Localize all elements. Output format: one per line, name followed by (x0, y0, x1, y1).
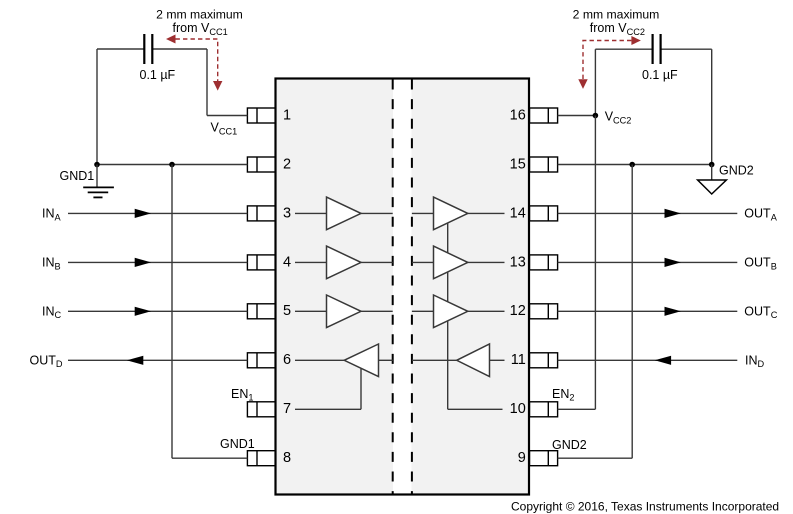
pin 3 lead box (247, 206, 275, 221)
svg-text:9: 9 (518, 450, 526, 466)
svg-text:14: 14 (510, 205, 526, 221)
buffer channel B side2 (output) (434, 246, 468, 279)
svg-text:Copyright © 2016, Texas Instru: Copyright © 2016, Texas Instruments Inco… (511, 500, 779, 514)
wire: GND1 rail to pin 2 (97, 164, 247, 166)
wire: IN_B to pin 4 (68, 261, 247, 263)
buffer channel C side1 (327, 295, 362, 328)
svg-text:4: 4 (283, 254, 291, 270)
wire: pin 3 to buffer input (295, 212, 327, 214)
wire: buffer output to barrier (ch A side1) (361, 212, 393, 214)
capacitor C2 0.1uF plates (651, 34, 653, 64)
junction VCC2 (593, 113, 599, 119)
placement arrow VCC2 (dashed red) (583, 41, 631, 80)
wire: buffer output to pin 14 (467, 212, 505, 214)
pin 9 lead box (530, 451, 558, 466)
svg-text:2 mm maximum: 2 mm maximum (573, 8, 660, 22)
svg-text:GND1: GND1 (220, 437, 255, 451)
wire: barrier to buffer input (ch A side2) (412, 212, 434, 214)
wire: barrier to buffer input (ch C side2) (412, 310, 434, 312)
wire: VCC1 bypass net top run (97, 48, 144, 50)
wire: VCC2 node up to cap (594, 49, 596, 115)
svg-text:GND2: GND2 (719, 163, 754, 177)
wire: barrier to channel D buffer input (side1) (379, 359, 393, 361)
wire: EN2 tie to VCC2 (down to pin 10) (594, 116, 596, 410)
pin 5 lead box (247, 304, 275, 319)
arrow: OUT_D direction (left) (127, 356, 143, 365)
wire: channel D buffer output to barrier (side2) (412, 359, 457, 361)
wire: cap down to GND2 (711, 49, 713, 164)
svg-text:15: 15 (510, 156, 526, 172)
wire: barrier to buffer input (ch B side2) (412, 261, 434, 263)
svg-text:8: 8 (283, 450, 291, 466)
buffer channel D side1 (output, enable from pin 7) (344, 344, 378, 377)
pin 11 lead box (530, 353, 558, 368)
wire: pin 13 to OUT_B (558, 261, 738, 263)
junction GND1 rail / pin8 branch (169, 162, 175, 168)
arrow: OUT_B direction (right) (665, 258, 681, 267)
wire: GND1 branch down to pin 8 (171, 165, 173, 459)
svg-text:2 mm maximum: 2 mm maximum (156, 8, 243, 22)
junction GND2 rail / pin 9 branch (629, 162, 635, 168)
arrow: IN_D direction (left) (655, 356, 671, 365)
pin 15 lead box (530, 157, 558, 172)
pin 2 lead box (247, 157, 275, 172)
pin 4 lead box (247, 255, 275, 270)
wire: IN_C to pin 5 (68, 310, 247, 312)
wire: pin 4 to buffer input (295, 261, 327, 263)
IC body U1 (276, 79, 530, 495)
wire: IN_D to pin 11 (558, 359, 738, 361)
wire: buffer output to pin 13 (467, 261, 505, 263)
svg-text:0.1 µF: 0.1 µF (140, 68, 176, 82)
pin 14 lead box (530, 206, 558, 221)
arrow: IN_A direction (right) (135, 209, 151, 218)
svg-text:6: 6 (283, 352, 291, 368)
svg-text:1: 1 (283, 107, 291, 123)
pin 8 lead box (247, 451, 275, 466)
IC body border (276, 79, 530, 495)
svg-text:16: 16 (510, 107, 526, 123)
wire: IN_A to pin 3 (68, 212, 247, 214)
wire: GND2 branch down to pin 9 (631, 165, 633, 459)
ground GND2 symbol (711, 165, 713, 181)
pin 1 lead box (247, 108, 275, 123)
wire: EN1 pin 7 to channel D buffer enable (295, 408, 361, 410)
svg-text:13: 13 (510, 254, 526, 270)
svg-text:7: 7 (283, 401, 291, 417)
wire: buffer output to barrier (ch C side1) (361, 310, 393, 312)
svg-text:2: 2 (283, 156, 291, 172)
arrow: IN_B direction (right) (135, 258, 151, 267)
wire: buffer output to barrier (ch B side1) (361, 261, 393, 263)
wire: EN2 pin 10 enable rail to output buffers (447, 223, 449, 410)
svg-text:11: 11 (511, 352, 526, 368)
junction GND2/cap (709, 162, 715, 168)
junction GND1/cap (94, 162, 100, 168)
buffer channel B side1 (327, 246, 362, 279)
arrow: OUT_A direction (right) (665, 209, 681, 218)
buffer channel D side2 (input) (457, 344, 490, 377)
ground GND1 symbol (96, 165, 98, 188)
svg-text:GND1: GND1 (60, 169, 95, 183)
pin 13 lead box (530, 255, 558, 270)
buffer channel A side1 (327, 197, 362, 230)
pin 10 lead box (530, 402, 558, 417)
wire: pin 12 to OUT_C (558, 310, 738, 312)
wire: pin 11 to channel D buffer input (490, 359, 505, 361)
isolation barrier dashed line left (392, 80, 394, 494)
wire: pin 6 to OUT_D (68, 359, 247, 361)
svg-text:12: 12 (510, 303, 526, 319)
wire: down to pin 1 (206, 49, 208, 116)
svg-text:10: 10 (510, 401, 526, 417)
buffer channel C side2 (output) (434, 295, 468, 328)
pin 7 lead box (247, 402, 275, 417)
wire: EN2 pin 10 horizontal (448, 408, 503, 410)
pin 16 lead box (530, 108, 558, 123)
svg-text:3: 3 (283, 205, 291, 221)
arrow: OUT_C direction (right) (665, 307, 681, 316)
placement arrow VCC1 (dashed red) (176, 39, 218, 81)
wire: VCC2 bypass net top run (595, 48, 651, 50)
wire: pin 15 to GND2 (558, 164, 712, 166)
wire: pin 14 to OUT_A (558, 212, 738, 214)
wire: channel D buffer output to pin 6 (295, 359, 344, 361)
svg-text:0.1 µF: 0.1 µF (642, 68, 678, 82)
capacitor C1 0.1uF plates (143, 34, 145, 64)
wire: pin 16 to VCC2 node (558, 115, 596, 117)
wire: cap to GND1 rail (96, 49, 98, 165)
pin 6 lead box (247, 353, 275, 368)
buffer channel A side2 (output) (434, 197, 468, 230)
pin 12 lead box (530, 304, 558, 319)
arrow: IN_C direction (right) (135, 307, 151, 316)
wire: pin 5 to buffer input (295, 310, 327, 312)
isolation barrier strip (393, 80, 412, 494)
wire: buffer output to pin 12 (467, 310, 505, 312)
svg-text:GND2: GND2 (552, 438, 587, 452)
svg-text:5: 5 (283, 303, 291, 319)
isolation barrier dashed line right (411, 80, 413, 494)
